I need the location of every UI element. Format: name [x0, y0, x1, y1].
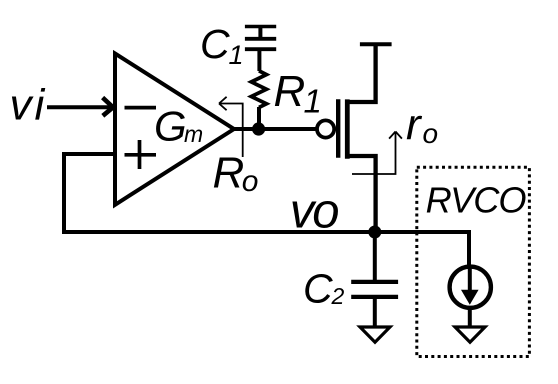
node output junction dot: [252, 122, 265, 135]
ro indicator arrow: [352, 132, 402, 175]
capacitor C1: [245, 37, 276, 41]
svg-text:1: 1: [229, 40, 244, 70]
wire C1 to R1: [257, 49, 261, 71]
supply bar above transistor: [360, 42, 392, 46]
wire bar to C1: [258, 27, 262, 38]
svg-text:RVCO: RVCO: [426, 180, 527, 221]
svg-text:r: r: [406, 101, 423, 150]
node vo junction dot: [368, 226, 381, 239]
current source I1: [450, 267, 491, 308]
arrowhead vi input: [103, 98, 113, 116]
transistor Q1 gate bar: [336, 99, 340, 158]
svg-text:1: 1: [304, 82, 322, 119]
wire vo to C2: [373, 232, 377, 280]
RVCO dotted box: [417, 167, 530, 356]
svg-text:C: C: [303, 266, 333, 312]
wire supply to source: [345, 44, 375, 102]
svg-text:o: o: [242, 165, 259, 198]
terminal bar above C1: [245, 25, 276, 29]
transistor Q1 gate bubble: [317, 120, 334, 137]
svg-text:R: R: [274, 67, 306, 116]
svg-text:2: 2: [331, 283, 345, 309]
transistor Q1 channel bar: [345, 99, 350, 158]
ground below C2: [360, 327, 390, 342]
svg-text:G: G: [154, 102, 187, 149]
Ro indicator arrow: [219, 97, 243, 157]
wire R1 to output node: [257, 107, 261, 129]
svg-text:vo: vo: [290, 184, 339, 238]
svg-text:vi: vi: [10, 81, 48, 130]
svg-text:m: m: [184, 121, 203, 147]
wire C2 to ground: [373, 297, 377, 326]
capacitor C2: [351, 280, 398, 284]
op-amp minus sign: [125, 106, 157, 110]
svg-text:R: R: [213, 148, 245, 197]
svg-text:C: C: [200, 21, 230, 67]
wire feedback: plus input left, down, along bottom to vo node, into RVCO: [64, 154, 469, 267]
ground below current source: [455, 327, 485, 342]
op-amp U1 triangle: [115, 54, 234, 205]
wire op-amp output to gate: [232, 127, 317, 131]
wire drain down to vo: [345, 156, 375, 232]
wire vi input: [47, 105, 111, 109]
op-amp plus sign: [125, 140, 157, 169]
svg-text:o: o: [423, 118, 439, 149]
resistor R1: [251, 71, 266, 108]
wire current source to ground: [468, 308, 472, 326]
